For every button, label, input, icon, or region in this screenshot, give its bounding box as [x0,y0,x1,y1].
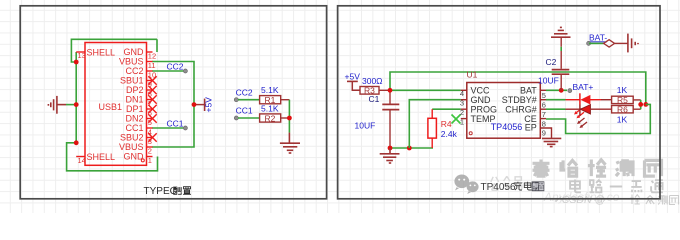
svg-text:R6: R6 [617,105,628,115]
svg-text:PROG: PROG [471,105,498,115]
wire GND pin3 [409,100,461,148]
power flag +5V right panel [345,72,361,91]
node junction ground tap [74,102,79,107]
resistor R2 5.1K [260,103,290,123]
svg-text:TYPEC: TYPEC [144,186,177,197]
power flag +5V (rotated) [194,97,213,113]
LED D2 (dark) [566,105,612,129]
svg-text:TP4056: TP4056 [491,122,523,132]
ground GND BAT- (rotated right) [628,34,638,53]
PANEL BORDERS [20,6,660,199]
svg-text:6: 6 [542,100,546,109]
svg-text:VBUS: VBUS [119,57,144,67]
wire GND loop left [67,39,158,171]
ground GND left (rotated) [48,96,66,114]
svg-text:5: 5 [148,118,152,127]
ground GND main [380,148,400,163]
svg-text:10UF: 10UF [538,75,559,85]
svg-text:CC2: CC2 [125,66,143,76]
node junction gnd wire [407,146,412,151]
svg-text:DP1: DP1 [126,104,144,114]
wire CC2 to R1 [238,99,260,101]
svg-text:1K: 1K [617,115,628,125]
node CC1 [183,126,187,130]
LEFT PANEL [48,27,650,197]
svg-text:1K: 1K [617,85,628,95]
svg-text:CC1: CC1 [125,123,143,133]
svg-text:13: 13 [78,51,86,60]
svg-text:EP: EP [525,123,537,133]
svg-text:2: 2 [148,146,152,155]
node junction BAT [559,88,564,93]
svg-text:SHELL: SHELL [87,47,116,57]
wire ground rail bottom [390,147,433,149]
wire EP to ground [540,128,551,139]
svg-text:SBU1: SBU1 [120,76,144,86]
svg-text:1: 1 [148,156,152,165]
svg-text:BAT: BAT [520,86,537,96]
svg-text:DN1: DN1 [125,95,143,105]
svg-text:1: 1 [460,118,464,127]
LED D1 (bright) [566,93,602,118]
wire VBUS loop [152,62,194,148]
svg-text:GND: GND [124,47,145,57]
svg-text:CC1: CC1 [236,106,253,116]
svg-text:7: 7 [542,110,546,119]
capacitor C1 10UF [355,90,400,148]
wire STDBY pin6 [546,99,566,101]
wire PROG pin2 [432,108,461,110]
node junction pin13 [74,60,79,65]
svg-text:7: 7 [148,99,152,108]
svg-text:5.1K: 5.1K [261,85,279,95]
svg-text:+5V: +5V [345,72,361,82]
pin numbers [78,51,157,165]
TITLES [144,181,545,197]
svg-text:4: 4 [148,127,152,136]
ground GND below R2 [280,133,300,153]
svg-text:9: 9 [148,80,152,89]
svg-text:3: 3 [148,137,152,146]
node BAT+ port [568,89,572,93]
svg-text:VBUS: VBUS [119,142,144,152]
wire R5 R6 join [640,100,642,109]
node junction +5V [192,102,197,107]
wire CC2 stub [152,70,184,72]
svg-text:11: 11 [148,61,156,70]
node junction R5R6 [638,102,643,107]
IC U1 TP4056 [460,70,546,139]
ground GND EP [542,138,561,146]
wire +5V top rail [390,72,646,104]
node BAT- port [587,33,628,48]
svg-text:DP2: DP2 [126,85,144,95]
resistor R4 2.4k [428,109,458,148]
node CC2 [183,69,187,73]
svg-text:R2: R2 [265,113,276,123]
wire pin13 drop [75,52,77,62]
svg-text:CC2: CC2 [167,61,184,71]
svg-text:STDBY#: STDBY# [502,95,537,105]
resistor R3 300ohm [360,76,390,96]
wire ground tap [66,104,76,106]
svg-text:6: 6 [148,108,152,117]
resistor R6 1K [612,105,641,125]
svg-text:DN2: DN2 [125,114,143,124]
svg-text:U1: U1 [467,70,478,80]
wire BAT pin5 [546,89,567,91]
svg-text:3: 3 [460,99,464,108]
svg-text:8: 8 [542,119,546,128]
no-connect X TEMP [452,115,461,124]
wire CHRG pin7 [546,108,566,110]
svg-text:9: 9 [542,129,546,138]
svg-text:CHRG#: CHRG# [505,105,537,115]
svg-text:R4: R4 [441,119,452,129]
svg-text:GND: GND [471,95,492,105]
svg-text:✓CSDN @: ✓CSDN @ [553,194,605,206]
wire CC1 to R2 [238,117,260,119]
svg-text:2: 2 [460,108,464,117]
no-connect X pins SBU1 DP2 DN1 DP1 DN2 SBU2 [148,76,156,141]
node junction R3 out [388,88,393,93]
wire CE loop [546,104,650,133]
svg-text:14: 14 [78,156,86,165]
svg-text:BAT-: BAT- [589,33,607,43]
svg-text:2.4k: 2.4k [441,129,458,139]
svg-text:4: 4 [460,89,464,98]
wire +5V rail to VCC [390,89,461,91]
svg-text:C2: C2 [546,57,557,67]
wire CC1 stub [152,127,184,129]
svg-text:TP4056: TP4056 [481,182,516,193]
svg-text:CC1: CC1 [167,118,184,128]
node junction R2 [287,116,292,121]
svg-text:VCC: VCC [471,86,491,96]
node junction pin14 [74,140,79,145]
svg-text:5: 5 [542,91,546,100]
svg-text:SHELL: SHELL [87,152,116,162]
svg-text:12: 12 [148,51,156,60]
node junction rail [643,102,648,107]
resistor R1 5.1K [260,85,290,105]
svg-text:C1: C1 [369,94,380,104]
wire R1 to R2 node [288,100,290,133]
svg-text:SBU2: SBU2 [120,133,144,143]
connector USB1 (Type-C) [74,43,300,166]
svg-text:GND: GND [124,152,145,162]
svg-text:10: 10 [148,70,156,79]
svg-text:8: 8 [148,89,152,98]
svg-text:CC2: CC2 [236,87,253,97]
capacitor C2 10UF [538,37,569,90]
ground GND top (flipped) [551,27,571,37]
svg-text:+5V: +5V [203,97,213,113]
node junction C1 gnd [388,146,393,151]
RIGHT PANEL [345,27,651,163]
resistor R5 1K [612,85,641,105]
WATERMARKS [454,160,678,207]
svg-text:300Ω: 300Ω [362,76,383,86]
svg-text:USB1: USB1 [99,102,123,112]
svg-text:5.1K: 5.1K [261,103,279,113]
svg-text:BAT+: BAT+ [573,82,594,92]
svg-text:10UF: 10UF [355,121,376,131]
wire D1 to R5 [601,99,612,101]
